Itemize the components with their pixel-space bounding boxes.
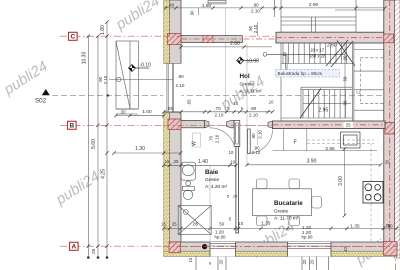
wall grid C right segment — [276, 32, 385, 43]
wall left exterior — [170, 0, 182, 256]
svg-text:65: 65 — [168, 106, 173, 111]
stove — [363, 182, 383, 204]
wall grid B right segment (Hol/Bucatarie divider) — [273, 121, 386, 129]
dim chain above grid B — [164, 111, 273, 113]
counter cabinets — [273, 150, 378, 152]
dim line Baie top — [164, 164, 236, 166]
svg-text:10: 10 — [229, 150, 234, 155]
svg-text:A: 4.20 m²: A: 4.20 m² — [205, 184, 228, 190]
svg-text:2.10: 2.10 — [249, 113, 258, 118]
dim line 10.30 — [88, 22, 107, 258]
svg-text:5.60: 5.60 — [91, 139, 97, 149]
chair bottom-left — [257, 216, 268, 226]
svg-text:.20: .20 — [219, 259, 224, 265]
stair break line upper — [326, 40, 355, 67]
hatch block bottom-left corner — [169, 242, 181, 253]
dim 25 wall labels — [344, 122, 354, 128]
svg-text:2.60: 2.60 — [327, 43, 337, 49]
wall right exterior — [384, 0, 395, 256]
svg-text:.70: .70 — [209, 135, 214, 142]
svg-text:A: 11.70 m²: A: 11.70 m² — [274, 216, 299, 222]
svg-text:.10: .10 — [232, 194, 238, 199]
kitchen counter dashed — [307, 140, 374, 241]
svg-text:hp.90: hp.90 — [215, 235, 227, 240]
svg-text:.90: .90 — [248, 25, 253, 32]
svg-text:-0.10: -0.10 — [140, 63, 152, 69]
svg-text:90: 90 — [343, 100, 348, 105]
grid line B — [60, 124, 400, 126]
dim line 2.80 — [181, 46, 272, 48]
dim line 3.90 — [247, 164, 381, 166]
door Baie leaf — [234, 121, 240, 147]
window Bucatarie bottom — [288, 242, 332, 257]
svg-text:.90: .90 — [252, 3, 259, 8]
svg-text:.90: .90 — [190, 10, 195, 16]
dim line top — [164, 7, 385, 9]
svg-text:Balustrada hp = 90cm: Balustrada hp = 90cm — [278, 71, 323, 76]
kitchen sink — [341, 132, 361, 148]
svg-text:±0.00: ±0.00 — [247, 58, 260, 64]
window Baie bottom — [210, 242, 236, 257]
toilet Baie — [182, 186, 194, 199]
svg-text:25: 25 — [386, 223, 391, 228]
svg-text:18 x 17: 18 x 17 — [310, 48, 325, 53]
stair break line lower — [300, 89, 321, 119]
svg-text:50: 50 — [219, 222, 225, 227]
svg-text:Gresie: Gresie — [240, 82, 254, 88]
exterior stair outline — [116, 41, 138, 114]
svg-text:.70: .70 — [214, 106, 221, 111]
svg-text:1.35: 1.35 — [261, 220, 271, 226]
partition wall Baie/Bucatarie — [236, 147, 239, 234]
svg-text:S02: S02 — [35, 98, 47, 105]
svg-text:4.25: 4.25 — [100, 169, 106, 179]
svg-text:2.10: 2.10 — [215, 113, 224, 118]
svg-text:B: B — [69, 123, 74, 130]
level marker +0.00 — [237, 57, 259, 64]
svg-text:2.95: 2.95 — [325, 146, 335, 152]
extension lines — [130, 8, 247, 242]
svg-text:.90: .90 — [251, 133, 256, 140]
exterior stair circle — [117, 77, 121, 81]
dim .30/1.00 exterior stair — [116, 115, 164, 117]
svg-text:.10: .10 — [268, 100, 274, 105]
dim 3.00 kitchen right — [344, 149, 346, 216]
door jamb taper — [205, 120, 210, 127]
svg-text:1.30: 1.30 — [135, 146, 145, 152]
balustrade label box — [276, 70, 340, 78]
svg-text:Hol: Hol — [240, 73, 250, 80]
dim line 1.30 — [115, 152, 181, 154]
svg-text:.28: .28 — [91, 248, 96, 255]
svg-text:A: A — [71, 244, 76, 251]
chair bottom-right — [289, 216, 300, 226]
hatch block left wall at grid C — [168, 34, 182, 45]
svg-text:1.40: 1.40 — [198, 159, 208, 165]
section marker S02 — [42, 89, 50, 95]
svg-text:25: 25 — [385, 160, 390, 165]
grid bubble C — [69, 32, 78, 40]
svg-text:.65: .65 — [187, 99, 192, 106]
svg-text:2.10: 2.10 — [103, 75, 108, 84]
svg-text:.20: .20 — [310, 259, 315, 265]
svg-text:.30: .30 — [119, 109, 126, 114]
staircase right strip landings — [352, 43, 384, 121]
wall pier between doors — [227, 120, 235, 127]
svg-text:A: 9.31 m²: A: 9.31 m² — [240, 89, 263, 95]
dim chain bottom interior — [164, 227, 397, 229]
svg-text:LL: LL — [357, 91, 361, 95]
svg-text:2.10: 2.10 — [176, 83, 185, 88]
svg-text:2.10: 2.10 — [215, 134, 220, 143]
svg-text:.40: .40 — [343, 246, 348, 252]
svg-text:2.95: 2.95 — [319, 108, 329, 114]
stair dim chain — [344, 43, 346, 118]
column dot bottom wall — [202, 244, 207, 249]
svg-text:50: 50 — [343, 76, 348, 81]
svg-text:90: 90 — [343, 55, 348, 60]
svg-text:2.10: 2.10 — [251, 9, 260, 14]
dims below bottom wall — [196, 257, 329, 270]
insulation left wall — [164, 0, 170, 256]
svg-text:15: 15 — [188, 257, 193, 262]
wall grid C left segment — [181, 36, 242, 43]
svg-text:2.90: 2.90 — [309, 2, 319, 8]
wall grid B left segment — [180, 120, 205, 127]
svg-text:Bucatarie: Bucatarie — [274, 200, 303, 207]
exterior hatch strip right — [395, 0, 400, 258]
staircase upper flight treads — [281, 43, 352, 121]
svg-text:3.90: 3.90 — [307, 158, 317, 164]
svg-text:.40: .40 — [168, 3, 175, 8]
svg-text:2.10: 2.10 — [252, 150, 261, 155]
svg-text:1.00: 1.00 — [142, 109, 152, 115]
svg-text:180 x 28: 180 x 28 — [309, 54, 326, 59]
grid line A — [60, 245, 400, 247]
washbasin Baie — [181, 162, 196, 186]
svg-text:.90: .90 — [177, 74, 184, 79]
svg-text:.25: .25 — [173, 159, 179, 164]
svg-text:25: 25 — [346, 123, 351, 128]
svg-text:Gresie: Gresie — [274, 209, 288, 215]
svg-text:.85: .85 — [192, 221, 199, 226]
wall bottom exterior — [170, 242, 398, 251]
svg-text:Baie: Baie — [205, 169, 219, 176]
svg-text:hp.90: hp.90 — [302, 235, 314, 240]
level marker -0.10 — [129, 63, 152, 72]
stairwell void dashed — [360, 58, 384, 104]
staircase lower flight treads — [281, 87, 352, 118]
chair top-left — [257, 179, 268, 189]
svg-text:10: 10 — [233, 101, 238, 106]
svg-text:10.30: 10.30 — [81, 52, 87, 65]
grid bubble B — [68, 121, 77, 129]
svg-text:3.00: 3.00 — [338, 176, 344, 186]
svg-text:2.80: 2.80 — [230, 41, 240, 47]
grid bubble A — [70, 242, 79, 250]
svg-text:10: 10 — [238, 221, 243, 226]
washing machine W — [193, 133, 201, 147]
grid line C overlay — [163, 35, 181, 37]
grid line C — [60, 35, 400, 37]
chair right — [312, 197, 322, 209]
hatch block left wall grid B — [168, 119, 181, 129]
section line S02 — [52, 95, 397, 97]
chair top-right — [289, 179, 300, 189]
svg-text:2.10: 2.10 — [253, 24, 258, 33]
insulation bottom wall — [164, 251, 397, 256]
hatch block bottom-right corner — [384, 242, 398, 256]
grid line B overlay — [163, 124, 273, 126]
door Bucatarie swing arc — [249, 130, 273, 154]
door Baie swing arc — [210, 128, 235, 147]
svg-text:1.35: 1.35 — [350, 224, 360, 230]
stair up arrow line — [267, 53, 345, 55]
dim door C wall — [257, 22, 259, 36]
svg-text:W: W — [192, 141, 198, 146]
hatch block right wall at grid B — [385, 123, 395, 135]
svg-text:2.10: 2.10 — [258, 130, 263, 139]
svg-text:15: 15 — [165, 159, 170, 164]
grid line right vertical — [395, 250, 397, 270]
svg-text:.10: .10 — [229, 159, 236, 164]
svg-text:Gresie: Gresie — [205, 177, 219, 183]
svg-text:C: C — [70, 34, 75, 41]
grid line A overlay — [163, 246, 397, 248]
svg-text:1.80: 1.80 — [100, 25, 106, 35]
svg-text:.90: .90 — [250, 106, 257, 111]
hatch block top-right corner — [384, 34, 394, 43]
left jamb of kitchen door — [268, 121, 273, 128]
stair direction line lower — [303, 103, 351, 105]
svg-text:25: 25 — [172, 222, 177, 227]
entrance door left wall — [163, 64, 181, 113]
balcony window block above grid C — [275, 0, 385, 32]
door Bucatarie leaf — [248, 129, 251, 154]
kitchen table — [253, 189, 312, 216]
svg-text:.20: .20 — [302, 259, 307, 265]
svg-text:15: 15 — [161, 222, 166, 227]
shower Baie — [178, 206, 211, 235]
